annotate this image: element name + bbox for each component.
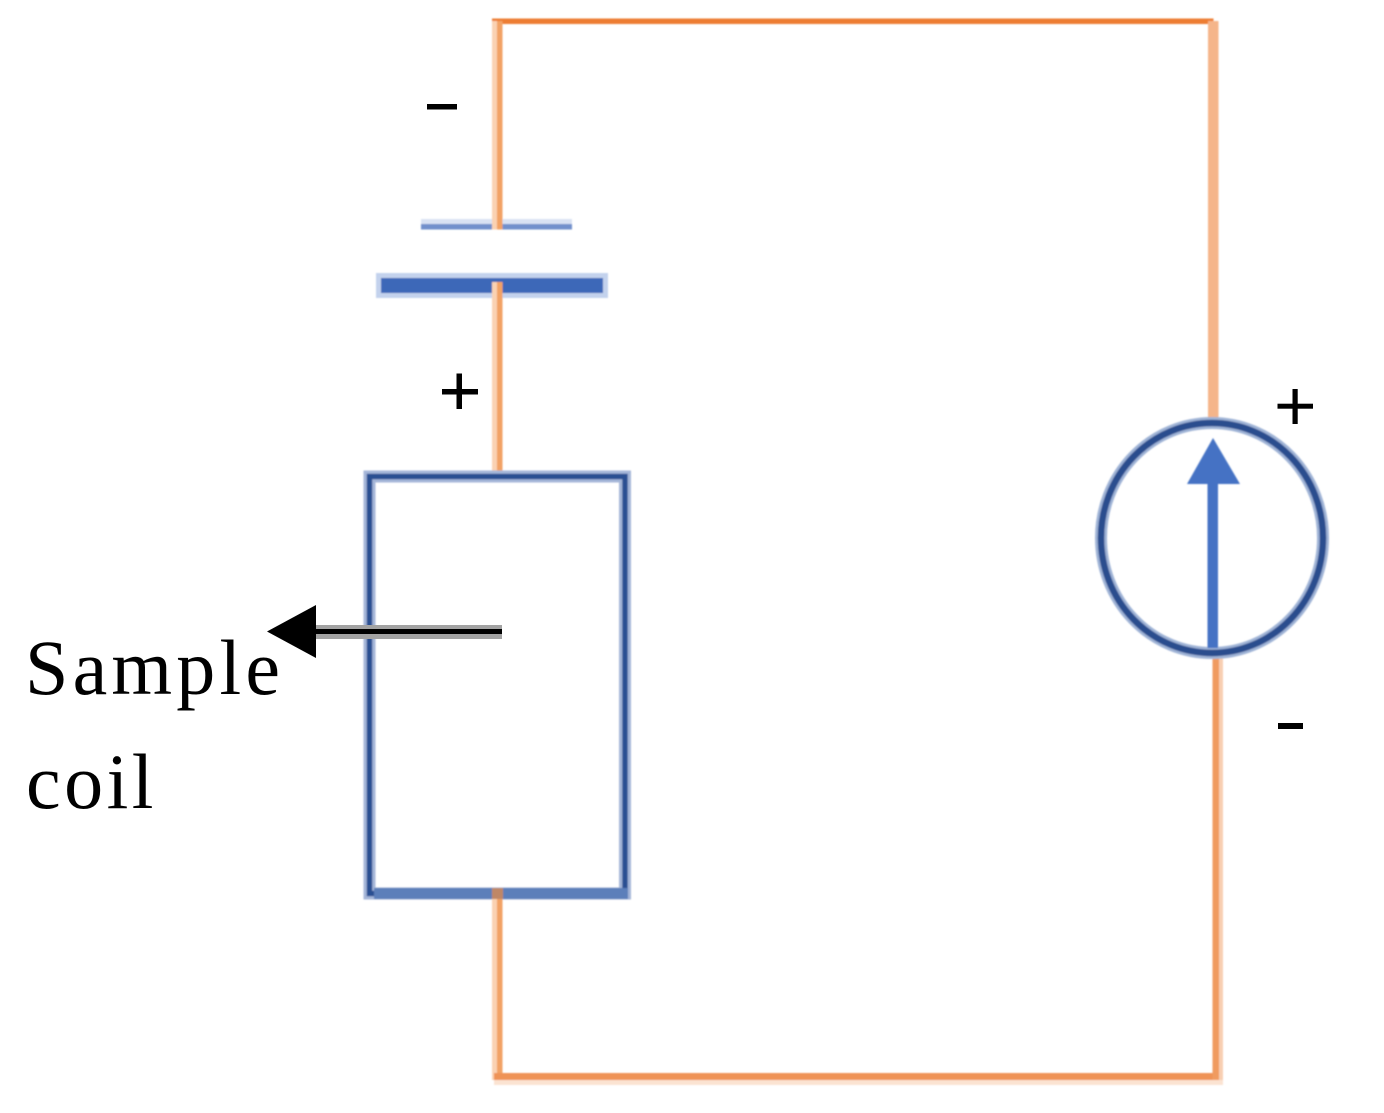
wire left vertical middle segment (battery to sample coil box)	[492, 282, 503, 480]
current source arrow (blue, pointing up)	[1187, 438, 1240, 648]
current source positive label "+"	[1278, 389, 1314, 424]
arrow pointing left from sample coil	[267, 605, 502, 658]
battery positive label "+"	[442, 374, 478, 410]
wire top horizontal	[492, 19, 1214, 25]
wire left vertical upper segment (top wire to battery)	[492, 21, 503, 230]
battery thin plate (negative)	[421, 219, 572, 230]
wire bottom horizontal	[494, 1073, 1223, 1085]
label text "coil"	[26, 743, 157, 821]
wire right vertical lower segment (current source to bottom wire)	[1213, 651, 1224, 1080]
current source negative label "-"	[1278, 723, 1303, 729]
wire right vertical upper segment (top wire to current source)	[1208, 21, 1219, 425]
wire left vertical lower segment (box to bottom wire)	[492, 888, 503, 1080]
battery thick plate (positive)	[376, 273, 608, 298]
current source circle	[1101, 423, 1323, 653]
battery negative label "-"	[427, 104, 457, 110]
label text "Sample"	[25, 629, 284, 707]
sample coil box	[370, 477, 629, 900]
